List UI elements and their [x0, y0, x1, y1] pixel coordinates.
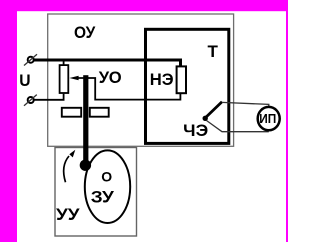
rotation arrow in УУ: [64, 156, 69, 182]
svg-text:U: U: [19, 71, 30, 90]
mechanical rod (thick bar) from wiper to drive: [83, 75, 88, 165]
svg-text:НЭ: НЭ: [150, 70, 174, 89]
terminal input bottom (circle with slash): [24, 95, 37, 106]
svg-text:ИП: ИП: [259, 112, 276, 126]
svg-text:ОУ: ОУ: [74, 23, 96, 42]
wiper arrow of potentiometer: [69, 76, 78, 80]
wire: blade tip to meter (top): [222, 102, 269, 107]
heater element НЭ (resistor): [177, 66, 186, 93]
wire: lower terminal to potentiometer bottom: [34, 94, 64, 100]
magenta top border bar: [0, 0, 288, 11]
terminal input top (circle with slash): [24, 54, 37, 65]
svg-text:ЗУ: ЗУ: [91, 188, 114, 207]
magenta right border line: [286, 0, 288, 242]
potentiometer УО (rheostat body): [63, 60, 65, 65]
contact pad left: [62, 108, 81, 117]
meter ИП circle: [258, 107, 280, 130]
wire: pivot to meter (bottom): [207, 121, 269, 132]
block UU (УУ control unit): [55, 148, 137, 237]
svg-text:ЧЭ: ЧЭ: [183, 121, 208, 140]
block T (controlled object, thick border): [146, 29, 229, 143]
magenta left border bar: [0, 0, 17, 242]
svg-text:О: О: [101, 169, 112, 185]
svg-text:УО: УО: [99, 68, 122, 87]
block OU (ОУ regulator unit): [48, 14, 234, 146]
sensor contact blade: [206, 102, 223, 118]
sensor contact ЧЭ: pivot dot: [203, 116, 208, 121]
svg-text:Т: Т: [208, 42, 219, 61]
contact pad right: [90, 108, 109, 117]
cam ellipse in УУ: [85, 150, 130, 223]
svg-text:УУ: УУ: [56, 205, 80, 224]
junction dot over ellipse: [80, 160, 91, 171]
wire: wiper to heater bottom: [88, 78, 180, 100]
wire: top supply wire from terminal to heater: [34, 60, 181, 67]
